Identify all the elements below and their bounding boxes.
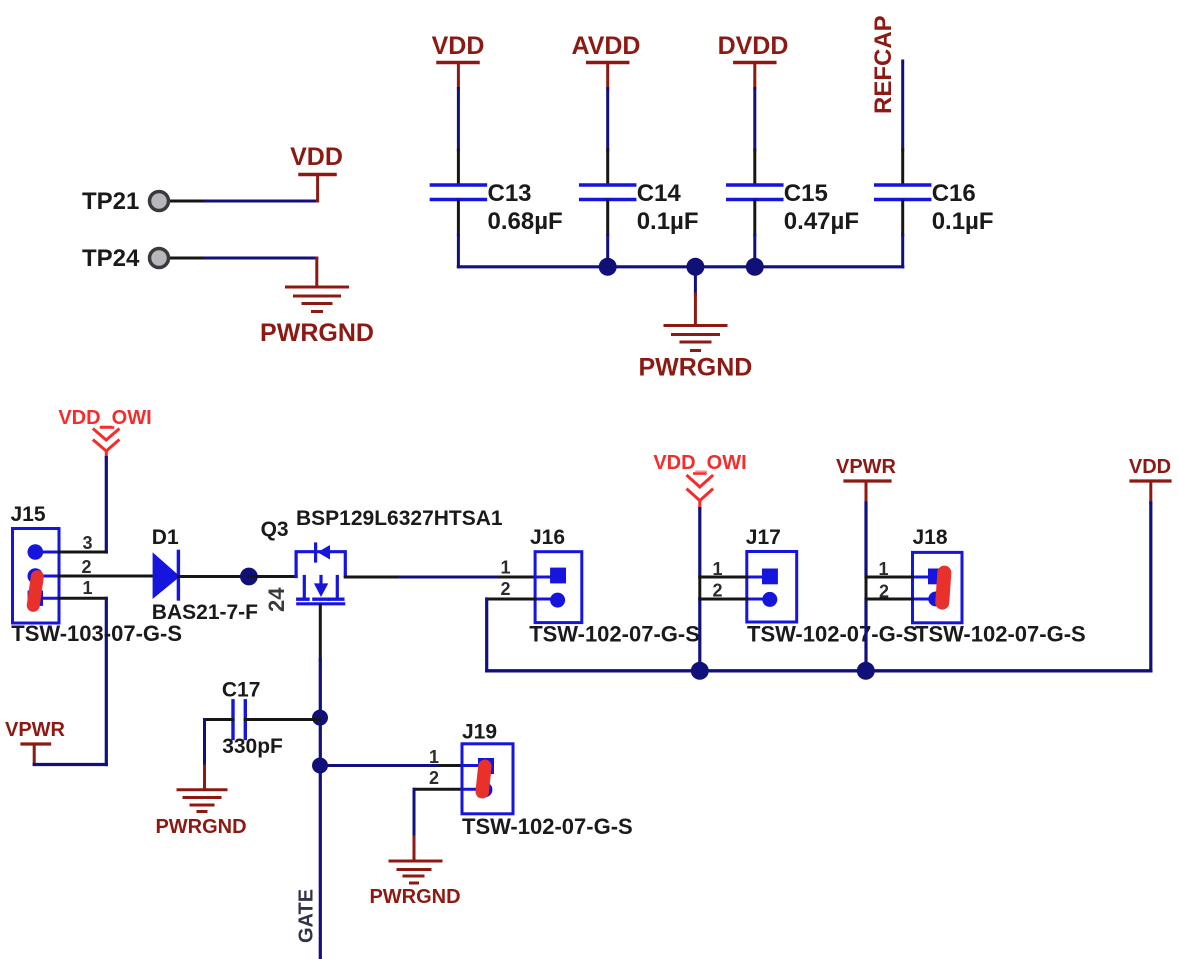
svg-text:3: 3 bbox=[82, 533, 92, 553]
svg-text:J19: J19 bbox=[462, 721, 497, 744]
svg-text:2: 2 bbox=[81, 557, 91, 577]
svg-text:Q3: Q3 bbox=[261, 518, 289, 541]
svg-text:PWRGND: PWRGND bbox=[155, 816, 246, 838]
svg-text:PWRGND: PWRGND bbox=[369, 886, 460, 908]
svg-text:BSP129L6327HTSA1: BSP129L6327HTSA1 bbox=[296, 507, 503, 530]
svg-text:VPWR: VPWR bbox=[5, 719, 66, 741]
svg-text:TSW-102-07-G-S: TSW-102-07-G-S bbox=[529, 622, 700, 647]
svg-text:C16: C16 bbox=[932, 180, 976, 207]
svg-text:PWRGND: PWRGND bbox=[260, 319, 374, 347]
svg-text:VDD_OWI: VDD_OWI bbox=[58, 407, 151, 429]
svg-text:D1: D1 bbox=[152, 526, 179, 549]
svg-text:VDD: VDD bbox=[290, 143, 343, 171]
svg-text:330pF: 330pF bbox=[222, 735, 283, 758]
svg-text:AVDD: AVDD bbox=[572, 32, 641, 60]
svg-text:C17: C17 bbox=[222, 679, 261, 702]
svg-text:J16: J16 bbox=[530, 526, 565, 549]
svg-text:TP21: TP21 bbox=[82, 188, 139, 215]
svg-text:TSW-102-07-G-S: TSW-102-07-G-S bbox=[747, 622, 918, 647]
svg-text:2: 2 bbox=[429, 768, 439, 788]
svg-text:TSW-102-07-G-S: TSW-102-07-G-S bbox=[915, 622, 1086, 647]
svg-text:TP24: TP24 bbox=[82, 245, 140, 272]
svg-text:VPWR: VPWR bbox=[836, 456, 897, 478]
svg-text:J15: J15 bbox=[11, 503, 46, 526]
svg-text:VDD: VDD bbox=[432, 32, 485, 60]
svg-text:C14: C14 bbox=[637, 180, 682, 207]
svg-text:TSW-102-07-G-S: TSW-102-07-G-S bbox=[462, 814, 633, 839]
svg-text:1: 1 bbox=[500, 558, 510, 578]
svg-text:C15: C15 bbox=[784, 180, 828, 207]
svg-text:0.47µF: 0.47µF bbox=[784, 208, 859, 235]
svg-text:VDD_OWI: VDD_OWI bbox=[653, 452, 746, 474]
svg-text:BAS21-7-F: BAS21-7-F bbox=[152, 601, 258, 624]
svg-text:0.68µF: 0.68µF bbox=[488, 208, 563, 235]
svg-text:REFCAP: REFCAP bbox=[870, 15, 897, 114]
svg-text:TSW-103-07-G-S: TSW-103-07-G-S bbox=[11, 621, 182, 646]
svg-text:1: 1 bbox=[82, 578, 92, 598]
svg-text:1: 1 bbox=[429, 747, 439, 767]
svg-text:VDD: VDD bbox=[1129, 456, 1171, 478]
svg-text:0.1µF: 0.1µF bbox=[637, 208, 699, 235]
svg-text:2: 2 bbox=[500, 579, 510, 599]
svg-text:J17: J17 bbox=[746, 526, 781, 549]
svg-text:PWRGND: PWRGND bbox=[638, 354, 752, 382]
svg-text:GATE: GATE bbox=[296, 889, 318, 943]
svg-text:DVDD: DVDD bbox=[718, 32, 789, 60]
svg-text:C13: C13 bbox=[488, 180, 532, 207]
svg-text:0.1µF: 0.1µF bbox=[932, 208, 994, 235]
svg-text:J18: J18 bbox=[913, 526, 948, 549]
svg-text:24: 24 bbox=[264, 587, 289, 612]
